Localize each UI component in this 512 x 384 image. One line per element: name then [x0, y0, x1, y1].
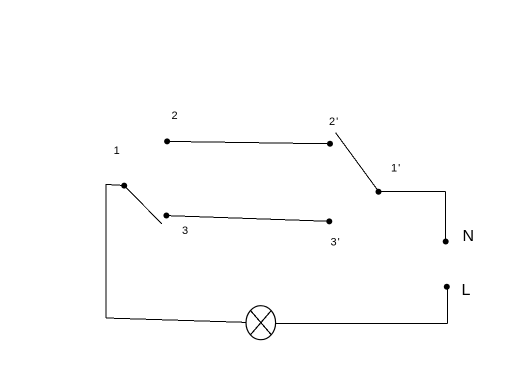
lamp cross stroke 1 — [251, 311, 271, 335]
node terminal 3 — [163, 213, 169, 219]
wire: stub from left vertical to terminal 1 — [106, 184, 124, 185]
wire: bottom left from lamp to left vertical — [106, 318, 247, 322]
node terminal 3' — [326, 218, 332, 224]
svg-text:2': 2' — [329, 116, 339, 128]
wire: left vertical from switch 1 down to bottom — [105, 184, 107, 318]
lamp body — [246, 306, 276, 340]
wire: bottom right from corner to lamp — [275, 322, 447, 324]
wire: 1' to corner — [379, 191, 446, 193]
svg-text:1: 1 — [114, 145, 120, 157]
wire: L down to bottom corner — [446, 287, 448, 324]
wire: 2 to 2' — [167, 141, 330, 143]
wire: 3 to 3' — [166, 216, 329, 222]
svg-text:L: L — [462, 282, 471, 299]
node terminal 2 — [164, 138, 170, 144]
node L terminal — [444, 284, 450, 290]
wire: corner down to N — [445, 192, 447, 242]
node terminal 2' — [327, 141, 333, 147]
svg-text:1': 1' — [391, 163, 401, 175]
node N terminal — [443, 239, 449, 245]
svg-text:2: 2 — [172, 110, 178, 122]
svg-text:N: N — [463, 228, 475, 245]
node terminal 1' — [376, 189, 382, 195]
lamp cross stroke 2 — [251, 311, 271, 335]
svg-text:3': 3' — [331, 237, 341, 249]
node terminal 1 — [121, 183, 127, 189]
switch S2 blade (from 2' toward 1') — [336, 133, 379, 192]
svg-text:3: 3 — [182, 225, 188, 237]
switch S1 blade (from 1 toward 3) — [124, 186, 162, 224]
